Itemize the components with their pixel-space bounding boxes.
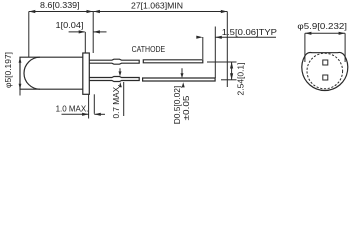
svg-text:8.6[0.339]: 8.6[0.339]	[40, 1, 80, 10]
phi5.9 ext right	[344, 33, 346, 62]
dimension 27 line	[93, 11, 227, 13]
svg-text:1.0 MAX.: 1.0 MAX.	[56, 104, 89, 113]
arrowhead lead dia x182	[181, 73, 184, 78]
lead dia arrow line at x120	[119, 68, 121, 72]
arrowhead 1.0MAX	[82, 113, 89, 116]
leader 1[0.04]	[69, 32, 86, 53]
cathode lead segment 1	[89, 59, 139, 64]
ext flange right bottom	[88, 94, 90, 118]
ext anode end	[214, 27, 216, 79]
anode lead segment 1	[89, 77, 139, 82]
lead square 1	[323, 60, 328, 65]
leader 1.5 tail	[215, 36, 276, 38]
arrowhead up tick	[182, 82, 185, 87]
arrowhead 1[0.04] right	[93, 30, 100, 33]
phi5.9 ext left	[304, 33, 306, 62]
arrowheads phi5.9	[305, 32, 312, 35]
ext from crimp x123.7	[123, 82, 125, 116]
arrowheads phi5	[19, 57, 22, 63]
arrow tail right of 1[0.04]	[93, 31, 106, 33]
cathode lead segment 2	[143, 60, 203, 63]
extension line x93	[92, 12, 94, 54]
anode lead segment 2	[143, 78, 216, 81]
svg-text:CATHODE: CATHODE	[132, 45, 166, 54]
extension line x227.8	[226, 12, 228, 88]
dimension 8.6 line	[29, 11, 93, 13]
arrowhead 1[0.04] left	[79, 30, 86, 33]
phi5.9 dim line	[305, 32, 345, 34]
arrowhead 1.5 left	[196, 36, 203, 39]
ext x94.3 bottom	[93, 94, 95, 114]
svg-text:D0.5[0.02]: D0.5[0.02]	[173, 86, 182, 125]
arrowheads 8.6	[29, 10, 36, 13]
arrowheads 27	[93, 10, 100, 13]
ext cathode end	[202, 37, 204, 59]
svg-text:27[1.063]MIN: 27[1.063]MIN	[131, 2, 183, 11]
svg-text:1.5[0.06]TYP: 1.5[0.06]TYP	[222, 28, 277, 37]
extension line left	[28, 12, 30, 58]
arrow tail right	[94, 113, 105, 115]
2.54 upper ext	[207, 61, 237, 63]
flange	[83, 53, 90, 94]
phi5 overshoot	[19, 89, 21, 95]
2.54 lower ext	[221, 79, 237, 81]
svg-text:φ5.9[0.232]: φ5.9[0.232]	[297, 22, 347, 31]
arrowhead 0.7 left-pointing	[94, 113, 101, 116]
top view outer flange with flat	[302, 52, 348, 90]
LED body outline	[20, 57, 83, 89]
svg-text:1[0.04]: 1[0.04]	[56, 21, 84, 30]
svg-text:±0.05: ±0.05	[182, 95, 191, 121]
lead dia arrow line at x182	[181, 68, 183, 73]
svg-text:2.54[0.1]: 2.54[0.1]	[237, 63, 246, 96]
arrowheads 2.54	[230, 62, 233, 69]
top view inner circle	[307, 53, 343, 89]
1.0 MAX dim line	[62, 113, 89, 115]
arrowhead lead dia x120	[119, 71, 122, 76]
arrowhead 1.5 right	[215, 36, 222, 39]
lead square 2	[323, 75, 328, 80]
dome arc	[24, 57, 40, 89]
svg-text:φ5[0.197]: φ5[0.197]	[4, 52, 13, 88]
svg-text:0.7 MAX.: 0.7 MAX.	[112, 85, 121, 119]
2.54 dim line	[231, 62, 233, 80]
